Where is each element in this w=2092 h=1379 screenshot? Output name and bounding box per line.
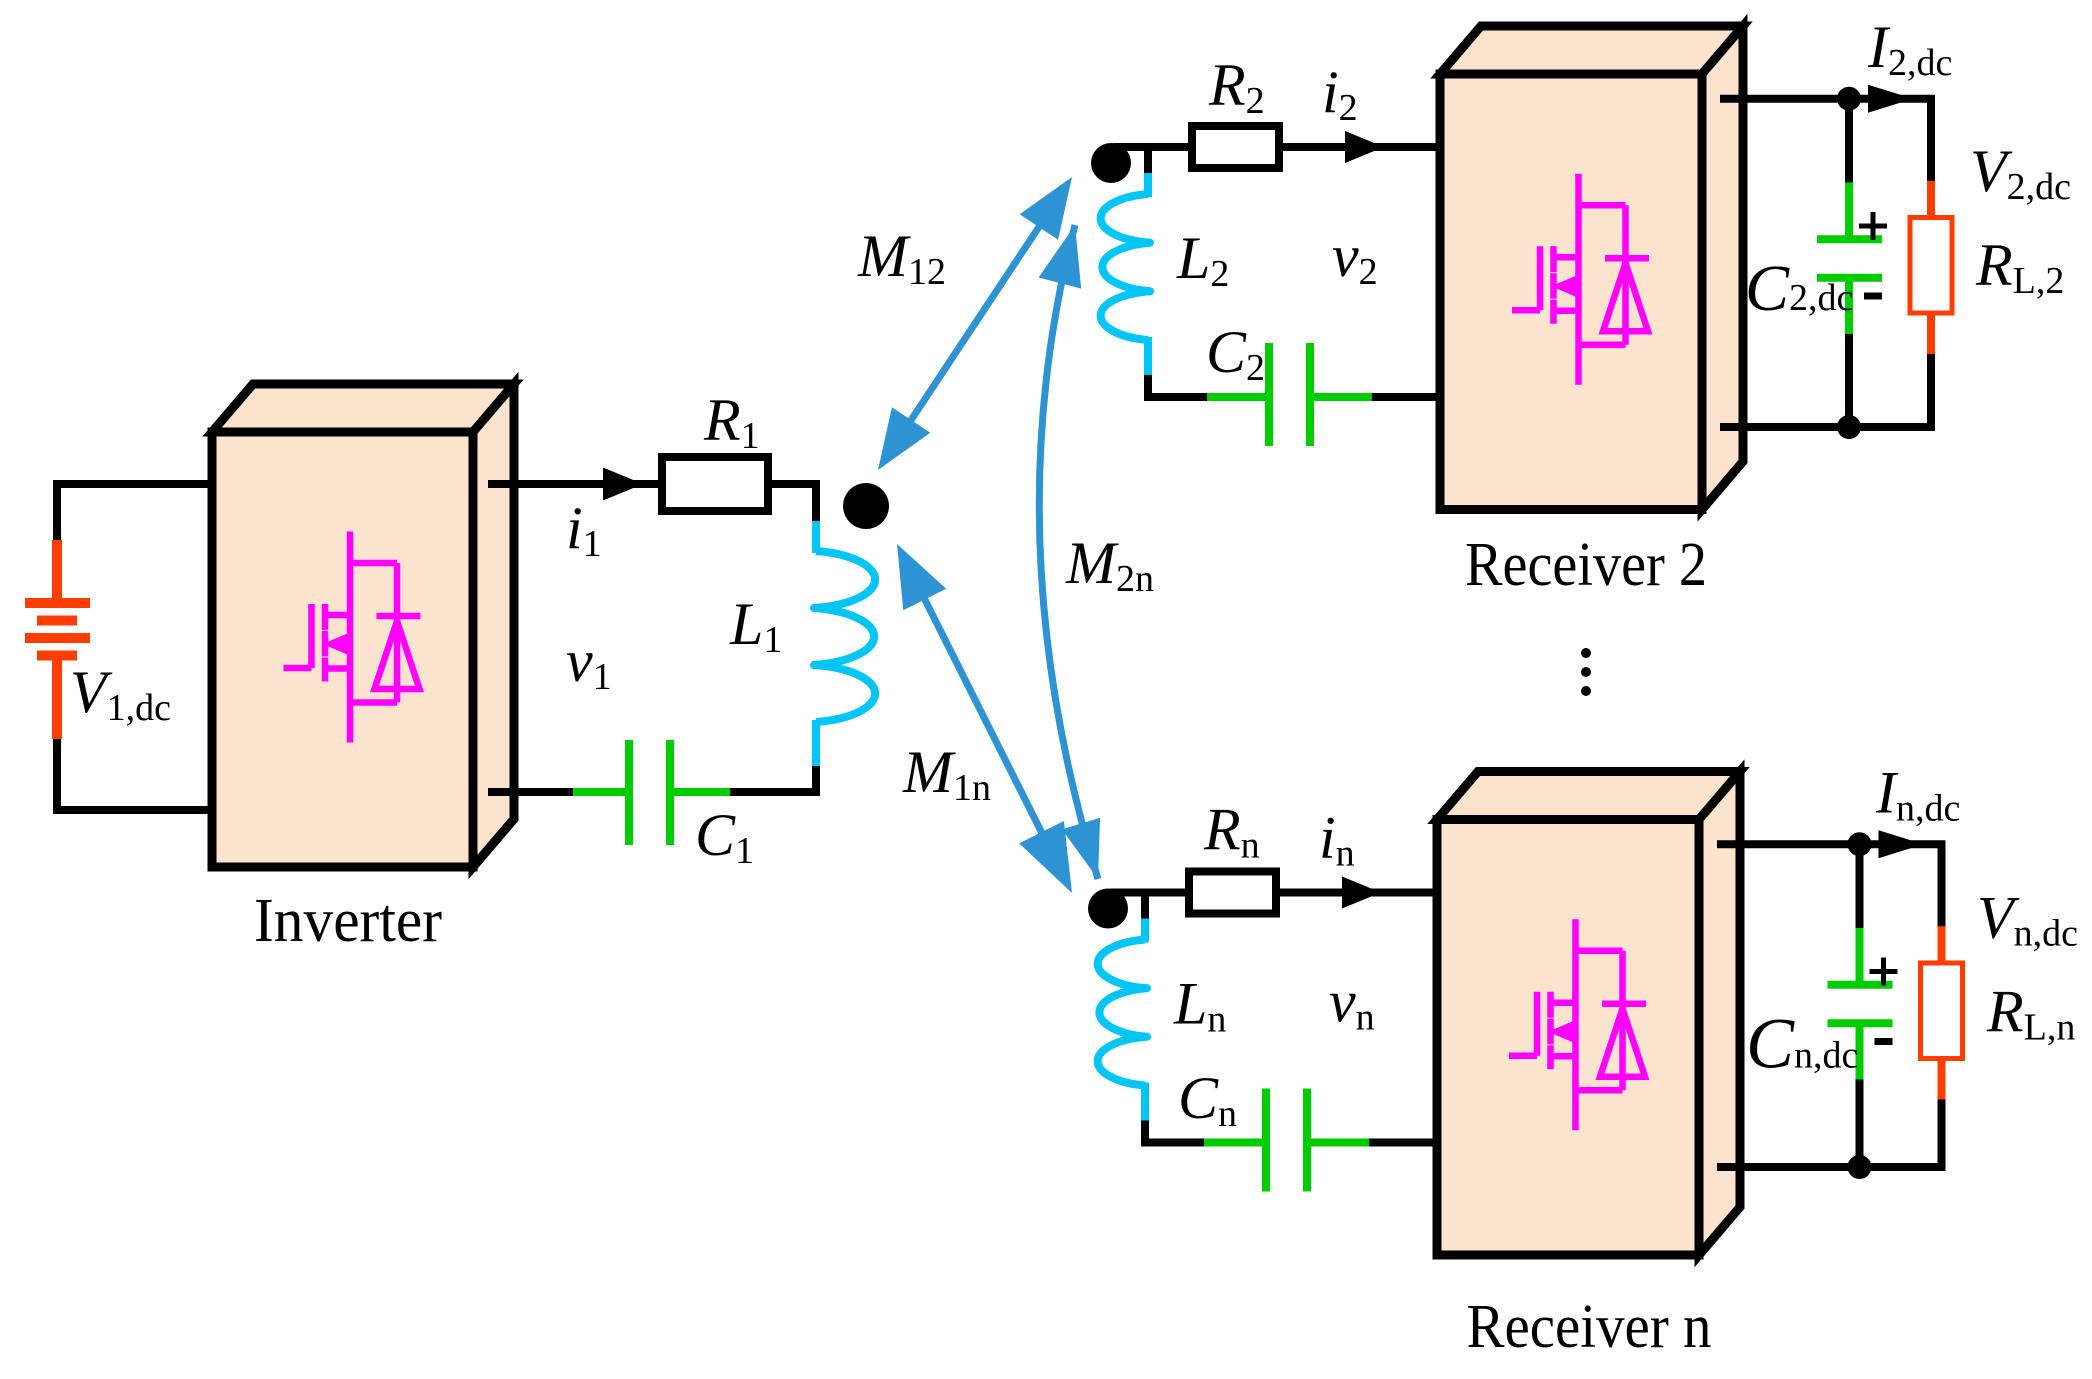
- svg-text:Inverter: Inverter: [254, 887, 442, 955]
- svg-text:Receiver n: Receiver n: [1467, 1293, 1712, 1361]
- svg-text:Receiver 2: Receiver 2: [1465, 531, 1707, 599]
